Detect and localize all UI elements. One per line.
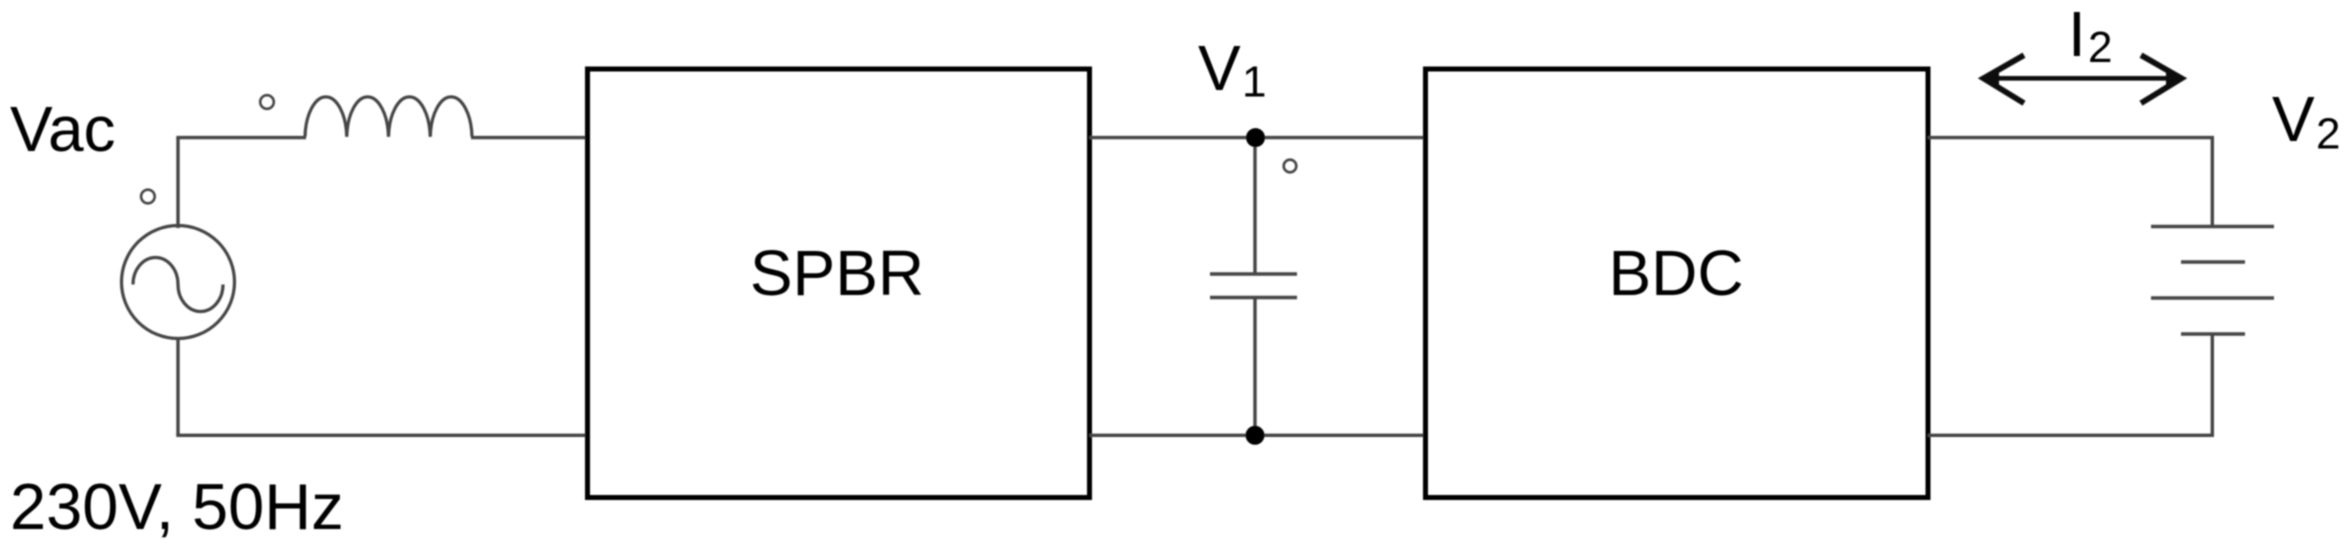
svg-text:I: I: [2068, 0, 2086, 70]
current arrow I2: [1983, 55, 2182, 103]
capacitor C: [1210, 274, 1297, 298]
svg-text:Vac: Vac: [10, 93, 116, 165]
svg-text:BDC: BDC: [1608, 237, 1743, 309]
wire capacitor branch upper: [1253, 138, 1256, 275]
svg-text:2: 2: [2316, 110, 2340, 159]
node bottom junction: [1246, 426, 1265, 445]
label SPBR: [750, 237, 924, 309]
svg-text:V: V: [2272, 83, 2315, 155]
label Vac: [10, 93, 116, 165]
box BDC: [1426, 69, 1929, 498]
label V2: [2272, 83, 2340, 159]
battery V2: [2151, 227, 2274, 335]
box SPBR: [588, 69, 1090, 498]
probe circle near source: [141, 190, 155, 204]
svg-text:1: 1: [1242, 58, 1266, 107]
wire SPBR to BDC top rail: [1090, 136, 1426, 139]
svg-text:SPBR: SPBR: [750, 237, 924, 309]
wire capacitor branch lower: [1253, 297, 1256, 435]
probe circle near V1: [1284, 160, 1297, 173]
label I2: [2068, 0, 2112, 72]
label BDC: [1608, 237, 1743, 309]
inductor L: [305, 97, 472, 137]
wire BDC to battery bottom: [1928, 434, 2214, 437]
svg-text:V: V: [1198, 32, 1241, 104]
svg-text:230V, 50Hz: 230V, 50Hz: [10, 470, 344, 543]
wire right vertical bottom (battery to bottom rail): [2211, 334, 2214, 437]
wire top-left horizontal (corner to inductor): [176, 136, 306, 139]
probe circle near inductor: [260, 95, 274, 109]
label 230V, 50Hz: [10, 470, 344, 543]
wire SPBR to BDC bottom rail: [1090, 434, 1426, 437]
wire inductor to SPBR: [471, 136, 588, 139]
wire left vertical bottom (source to bottom rail): [176, 337, 179, 435]
wire right vertical top (to battery): [2211, 136, 2214, 227]
wire bottom-left horizontal (corner to SPBR): [176, 434, 588, 437]
ac source Vac: [122, 226, 235, 339]
wire left vertical top (source to top rail): [176, 138, 179, 228]
svg-text:2: 2: [2088, 23, 2112, 72]
wire BDC to battery top: [1928, 136, 2214, 139]
label V1: [1198, 32, 1266, 107]
node V1 top junction: [1246, 128, 1265, 147]
